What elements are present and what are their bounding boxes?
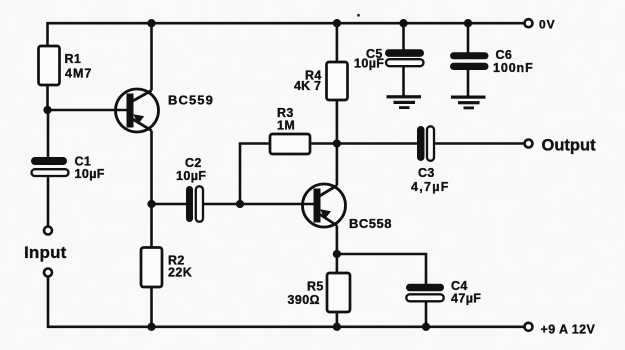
svg-text:BC559: BC559: [168, 93, 214, 108]
svg-text:47µF: 47µF: [451, 292, 481, 306]
svg-text:4M7: 4M7: [65, 67, 92, 81]
svg-text:22K: 22K: [168, 266, 192, 280]
svg-text:BC558: BC558: [349, 216, 392, 231]
svg-text:10µF: 10µF: [176, 169, 206, 183]
svg-text:10µF: 10µF: [75, 167, 105, 181]
svg-text:10µF: 10µF: [354, 57, 384, 71]
svg-text:4K 7: 4K 7: [294, 79, 321, 93]
svg-text:Input: Input: [24, 243, 67, 262]
svg-text:100nF: 100nF: [493, 61, 534, 75]
svg-text:C2: C2: [185, 156, 202, 170]
svg-text:1M: 1M: [277, 119, 295, 133]
svg-text:+9 A 12V: +9 A 12V: [541, 323, 596, 337]
svg-text:R1: R1: [65, 52, 82, 66]
svg-text:C6: C6: [496, 48, 513, 62]
svg-text:0V: 0V: [539, 18, 556, 32]
svg-text:C3: C3: [418, 166, 435, 180]
svg-text:4,7µF: 4,7µF: [411, 180, 450, 194]
svg-text:390Ω: 390Ω: [288, 293, 320, 307]
svg-text:Output: Output: [542, 137, 597, 155]
svg-text:R5: R5: [307, 280, 324, 294]
